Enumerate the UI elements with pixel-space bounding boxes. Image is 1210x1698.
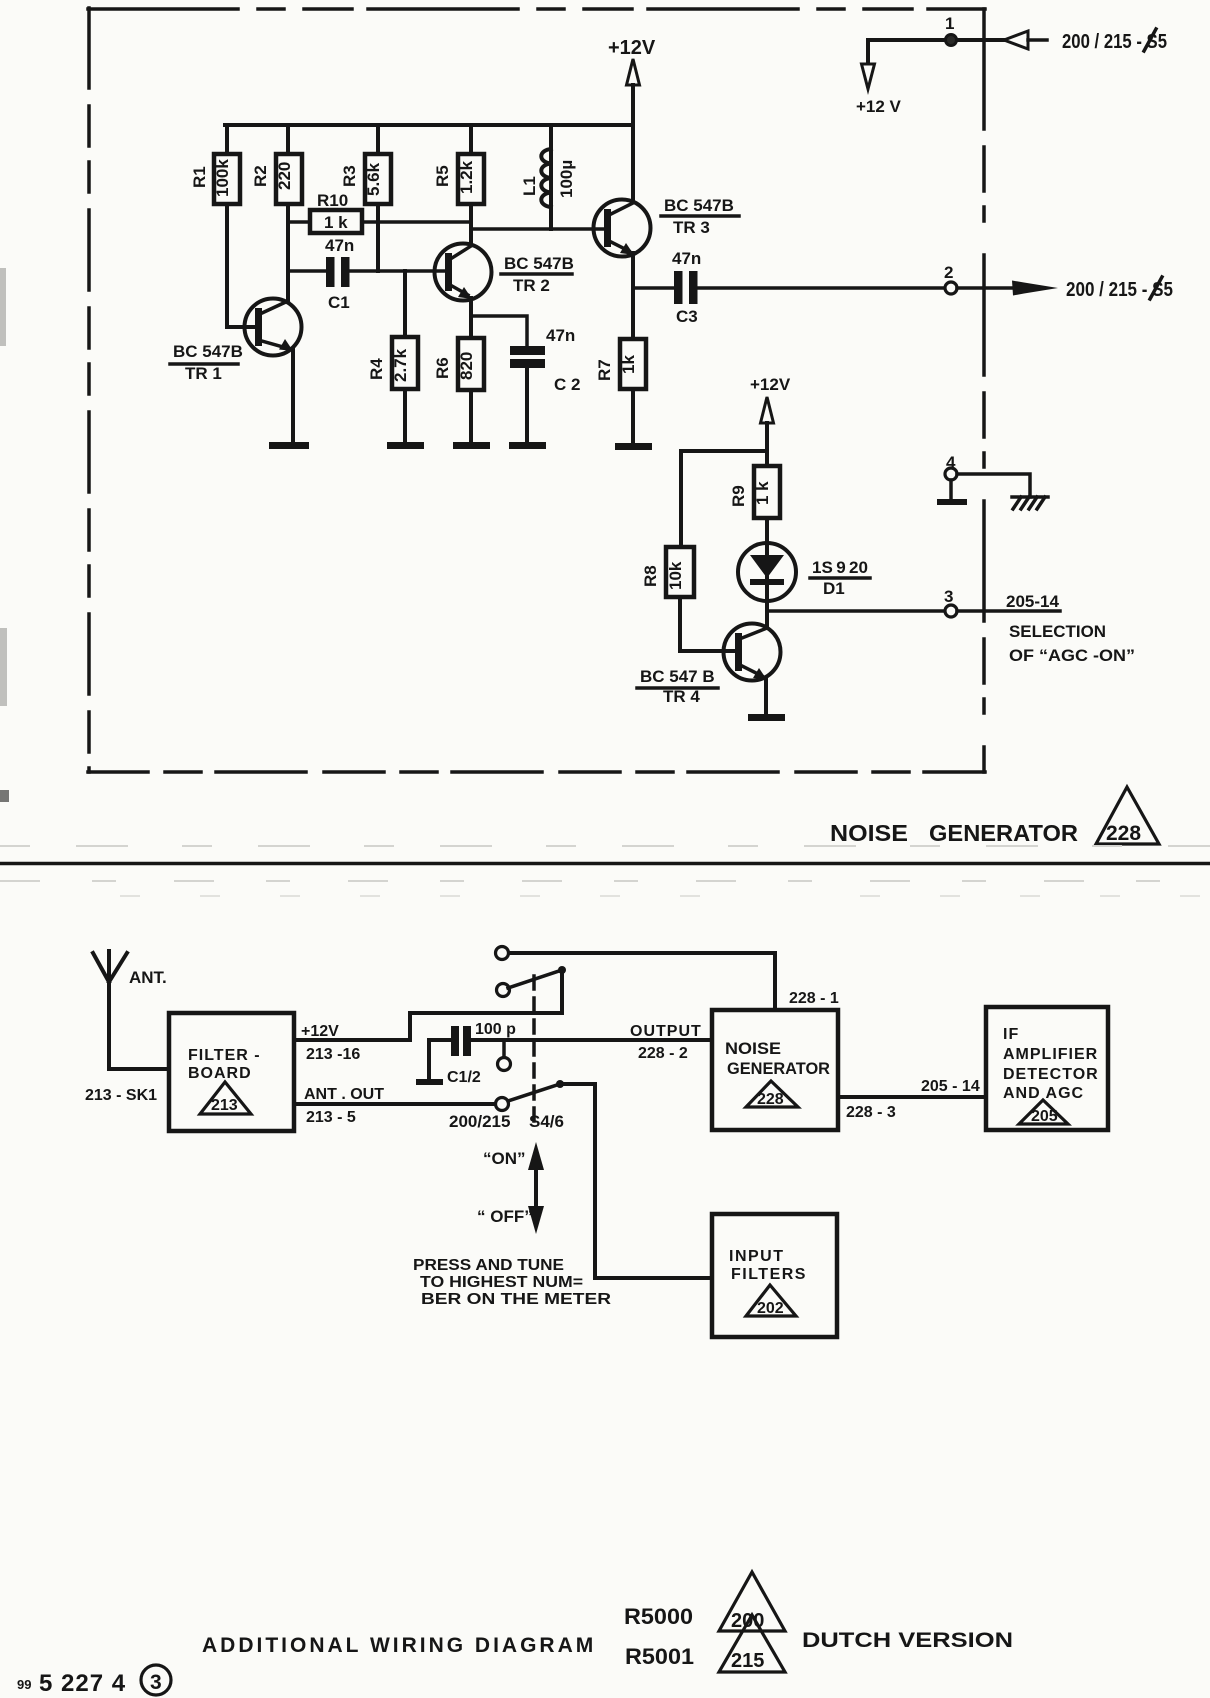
svg-text:5.6k: 5.6k [364, 162, 383, 196]
wire C1/2 to noise generator output [471, 1038, 712, 1042]
node 1 wire [868, 38, 1004, 42]
switch S4/6 pole 2 arm [508, 1080, 564, 1101]
wire noise generator to IF amplifier [838, 1095, 986, 1099]
svg-text:BER ON THE METER: BER ON THE METER [421, 1291, 612, 1308]
wire node 4 to chassis [957, 474, 1030, 497]
wire TR3 emitter to R7 and C3 [631, 253, 635, 339]
svg-text:228: 228 [757, 1091, 784, 1108]
svg-text:IF: IF [1003, 1026, 1019, 1043]
svg-text:ANT.: ANT. [129, 968, 167, 987]
svg-text:1 k: 1 k [753, 481, 772, 505]
wire +12V supply bus [225, 123, 633, 127]
scan fold line (light dashes above separator) [0, 845, 1210, 847]
svg-text:200/215: 200/215 [449, 1112, 510, 1131]
scan fold line (light dashes below separator) [0, 880, 1210, 882]
svg-text:+12V: +12V [301, 1023, 339, 1040]
svg-text:L1: L1 [520, 176, 539, 196]
wire R10 right to TR2 collector line [362, 220, 471, 224]
svg-text:215: 215 [731, 1650, 764, 1672]
svg-text:213 - 5: 213 - 5 [306, 1109, 356, 1126]
scan artifact left edge smudge 2 [0, 628, 7, 706]
block INPUT FILTERS [712, 1214, 837, 1337]
ground R6 [469, 390, 473, 443]
svg-text:1.2k: 1.2k [457, 160, 476, 194]
switch travel arrow (double head) [528, 1142, 544, 1234]
svg-text:R5: R5 [433, 165, 452, 187]
svg-text:PRESS AND TUNE: PRESS AND TUNE [413, 1257, 564, 1274]
svg-text:228 - 1: 228 - 1 [789, 990, 839, 1007]
svg-text:TR 2: TR 2 [513, 276, 550, 295]
wire switch to input filters [560, 1084, 712, 1278]
wire +12V filter board to switch [294, 971, 562, 1040]
svg-text:SELECTION: SELECTION [1009, 622, 1106, 641]
resistor R2 [251, 125, 302, 204]
svg-text:C1/2: C1/2 [447, 1069, 481, 1086]
title NOISE GENERATOR [830, 820, 1078, 846]
svg-text:FILTERS: FILTERS [731, 1266, 807, 1283]
wire R8 to TR4 base [680, 597, 735, 651]
svg-text:47n: 47n [672, 249, 701, 268]
svg-text:3: 3 [150, 1671, 162, 1694]
circled 3 [141, 1665, 171, 1695]
wire +12V arrow to TR3 collector [631, 85, 635, 202]
arrow output 2 (solid) [1012, 281, 1058, 296]
svg-text:R10: R10 [317, 191, 348, 210]
svg-text:R1: R1 [190, 166, 209, 188]
dashed board outline bottom [88, 770, 985, 774]
node 3 [944, 587, 957, 617]
ground C1/2 [416, 1079, 443, 1085]
svg-text:+12V: +12V [750, 375, 791, 394]
node 4 [945, 453, 957, 480]
resistor R4 [367, 271, 418, 389]
svg-text:R3: R3 [340, 165, 359, 187]
resistor R5 [433, 125, 484, 204]
wire R10 left to R2 line [288, 220, 310, 224]
svg-text:AMPLIFIER: AMPLIFIER [1003, 1046, 1098, 1063]
svg-text:+12V: +12V [608, 37, 656, 59]
triangle unit 200 [719, 1572, 785, 1632]
svg-text:2.7k: 2.7k [391, 348, 410, 382]
svg-text:R8: R8 [641, 565, 660, 587]
wire R5 to TR2 collector [469, 204, 473, 245]
svg-text:202: 202 [757, 1300, 784, 1317]
svg-text:GENERATOR: GENERATOR [929, 820, 1078, 846]
wire R1 to TR1 base [227, 204, 254, 327]
+12V arrow symbol (node 1, pointing down) [862, 64, 875, 89]
block IF AMPLIFIER DETECTOR AND AGC [986, 1007, 1108, 1130]
svg-text:5 227 4: 5 227 4 [39, 1670, 126, 1697]
svg-text:S4/6: S4/6 [529, 1112, 564, 1131]
ground R7 [631, 389, 635, 444]
wire node 3 [767, 609, 945, 613]
+12V arrow symbol (top) [627, 59, 640, 85]
svg-text:GENERATOR: GENERATOR [727, 1059, 830, 1078]
svg-text:R5001: R5001 [625, 1644, 694, 1669]
chassis ground (hatched) [1012, 497, 1048, 509]
svg-text:47n: 47n [325, 236, 354, 255]
triangle unit 202 [746, 1285, 796, 1317]
svg-text:DETECTOR: DETECTOR [1003, 1066, 1099, 1083]
capacitor C3 47n [672, 249, 701, 326]
svg-text:BC 547B: BC 547B [664, 196, 734, 215]
svg-text:213 - SK1: 213 - SK1 [85, 1087, 157, 1104]
scan fold line (light dashes lower) [120, 895, 1210, 897]
triangle unit 228 (block) [746, 1081, 798, 1108]
svg-text:INPUT: INPUT [729, 1248, 785, 1265]
wire ANT.OUT filter board to switch [294, 1102, 495, 1106]
svg-text:R7: R7 [595, 359, 614, 381]
arrow input 1 (open) [1004, 31, 1047, 49]
svg-text:TR 1: TR 1 [185, 364, 222, 383]
svg-text:205-14: 205-14 [1006, 592, 1059, 611]
svg-text:47n: 47n [546, 326, 575, 345]
svg-text:10k: 10k [666, 561, 685, 590]
svg-text:DUTCH VERSION: DUTCH VERSION [802, 1629, 1013, 1652]
wire node 3 external [957, 609, 1060, 613]
svg-text:205: 205 [1031, 1108, 1058, 1125]
switch S4/6 pole 2 upper contact [498, 1040, 511, 1071]
wire C3 to pin 2 [698, 286, 945, 290]
transistor TR3 BC547B [594, 196, 740, 257]
switch S4/6 pole 2 contact [496, 1098, 509, 1111]
wire TR2 emitter branch to C2 [471, 316, 527, 346]
svg-text:R6: R6 [433, 357, 452, 379]
svg-text:3: 3 [944, 587, 953, 606]
svg-text:BC 547 B: BC 547 B [640, 667, 715, 686]
ground TR1 emitter [291, 440, 295, 443]
svg-text:“ OFF”: “ OFF” [477, 1207, 533, 1226]
wire R3 down to C1 output node [376, 204, 380, 271]
label 200/215-S5 (pin 2) [1066, 277, 1173, 301]
svg-text:228: 228 [1106, 822, 1141, 845]
svg-text:TR 3: TR 3 [673, 218, 710, 237]
switch S4/6 pole 1 arm [508, 966, 566, 988]
svg-text:100µ: 100µ [557, 160, 576, 198]
capacitor C1 47n [325, 236, 354, 312]
svg-text:BC 547B: BC 547B [173, 342, 243, 361]
svg-text:C1: C1 [328, 293, 350, 312]
svg-text:OF “AGC -ON”: OF “AGC -ON” [1009, 646, 1135, 665]
svg-text:R5000: R5000 [624, 1604, 693, 1629]
resistor R1 [190, 125, 240, 204]
transistor TR1 BC547B [170, 299, 302, 441]
svg-text:C3: C3 [676, 307, 698, 326]
svg-text:ADDITIONAL WIRING DIAGRAM: ADDITIONAL WIRING DIAGRAM [202, 1634, 596, 1657]
svg-text:TO HIGHEST NUM=: TO HIGHEST NUM= [420, 1274, 583, 1291]
svg-text:1: 1 [945, 14, 954, 33]
svg-text:820: 820 [457, 352, 476, 380]
wire antenna to filter board [109, 982, 169, 1069]
block FILTER-BOARD [169, 1013, 294, 1131]
svg-text:+12 V: +12 V [856, 97, 902, 116]
svg-text:200 / 215 - S5: 200 / 215 - S5 [1066, 279, 1173, 301]
svg-text:228 - 2: 228 - 2 [638, 1045, 688, 1062]
svg-text:C 2: C 2 [554, 375, 580, 394]
+12V arrow symbol (R9 branch) [761, 397, 774, 423]
wire D1 to node 3 junction and TR4 collector [765, 601, 769, 628]
ground node 4 (bar) [937, 480, 967, 505]
svg-text:R2: R2 [251, 165, 270, 187]
svg-text:FILTER -: FILTER - [188, 1047, 261, 1064]
svg-text:“ON”: “ON” [483, 1149, 526, 1168]
scan artifact left edge smudge 1 [0, 268, 6, 346]
svg-text:BC 547B: BC 547B [504, 254, 574, 273]
resistor R8 [641, 547, 694, 597]
dashed board outline right [982, 9, 986, 772]
antenna ANT [93, 951, 167, 987]
svg-text:100 p: 100 p [475, 1021, 516, 1038]
dashed board outline top [88, 7, 985, 11]
resistor R10 [310, 191, 362, 233]
switch mechanical link (dashed) [532, 976, 536, 1124]
svg-text:2: 2 [944, 263, 953, 282]
separator line [0, 862, 1210, 866]
svg-text:100k: 100k [213, 159, 232, 197]
svg-text:ANT . OUT: ANT . OUT [304, 1086, 384, 1103]
svg-text:TR 4: TR 4 [663, 687, 700, 706]
triangle unit 205 [1019, 1100, 1068, 1125]
wire pin 2 to output arrow [957, 286, 1014, 290]
svg-text:99: 99 [17, 1677, 31, 1692]
transistor TR2 BC547B [435, 244, 574, 301]
svg-text:R4: R4 [367, 358, 386, 380]
resistor R9 [729, 466, 780, 518]
wire TR3 emitter to C3 [633, 286, 674, 290]
wire node 1 to +12V arrow [866, 40, 870, 66]
node 2 [944, 263, 957, 294]
scan artifact left edge blob [0, 790, 9, 802]
svg-text:NOISE: NOISE [725, 1039, 781, 1058]
triangle unit 213 [200, 1082, 251, 1114]
block NOISE GENERATOR [712, 1010, 838, 1130]
wire R2 to TR1 collector [286, 204, 290, 301]
svg-text:1 k: 1 k [324, 213, 348, 232]
ground C2 [525, 368, 529, 443]
wire C1 to TR2 base [350, 269, 446, 273]
ground TR4 emitter [764, 678, 768, 715]
capacitor C1/2 100p [447, 1021, 516, 1086]
wire C1/2 to ground [429, 1040, 451, 1080]
switch S4/6 pole 1 contact b [497, 984, 510, 997]
svg-text:1S 9 20: 1S 9 20 [812, 558, 868, 577]
resistor R7 [595, 339, 646, 389]
ground R4 [403, 389, 407, 443]
svg-text:220: 220 [275, 162, 294, 190]
svg-text:BOARD: BOARD [188, 1065, 252, 1082]
wire contact a to noise generator 228-1 [509, 953, 775, 1010]
svg-text:D1: D1 [823, 579, 845, 598]
label 200/215-S5 (pin 1) [1062, 29, 1167, 53]
svg-text:213 -16: 213 -16 [306, 1046, 360, 1063]
dashed board outline left [87, 8, 91, 772]
svg-text:1k: 1k [619, 355, 638, 374]
diode D1 1S920 [738, 543, 870, 601]
inductor L1 100u [520, 125, 576, 229]
triangle unit 215 [719, 1615, 785, 1672]
svg-text:228 - 3: 228 - 3 [846, 1104, 896, 1121]
svg-text:OUTPUT: OUTPUT [630, 1023, 702, 1040]
wire R9 to D1 [765, 518, 769, 543]
switch S4/6 pole 1 contact a [496, 947, 509, 960]
wire TR2 collector node to TR3 base [471, 227, 604, 231]
svg-text:NOISE: NOISE [830, 820, 908, 846]
node 1 [945, 14, 957, 46]
svg-text:R9: R9 [729, 485, 748, 507]
wire +12V to R9 and R8 [681, 423, 767, 547]
triangle unit 228 (title) [1096, 787, 1159, 845]
svg-text:213: 213 [211, 1097, 238, 1114]
capacitor C2 47n [510, 326, 580, 394]
transistor TR4 BC547B [637, 624, 781, 707]
wire TR2 emitter to R6 [469, 298, 473, 338]
resistor R3 [340, 125, 391, 204]
svg-text:205 - 14: 205 - 14 [921, 1078, 980, 1095]
wire R2 line to C1 [288, 269, 326, 273]
resistor R6 [433, 338, 484, 390]
